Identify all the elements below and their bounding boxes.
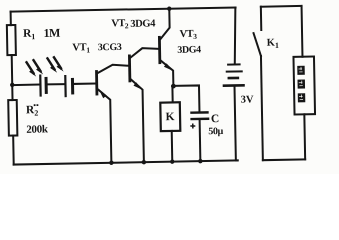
light arrows BP1 [27,62,34,73]
battery GB plate 2 long [227,70,242,72]
capacitor C plate bottom [192,118,208,121]
svg-text:K1: K1 [267,37,279,50]
node VT1 emitter at rail [109,161,113,165]
wire right loop lower left [261,56,263,160]
capacitor C plate top [191,111,207,114]
wire between cells [48,83,65,85]
transistor VT1 emitter [98,89,111,163]
resistor R2 [8,100,17,136]
transistor VT3 emitter [161,61,173,87]
wire right loop upper left [260,7,262,30]
transistor VT2 emitter [131,79,144,162]
wire junction to capacitor [173,85,199,111]
node VT2 emitter at rail [142,160,146,164]
wire capacitor to bottom rail [199,120,202,161]
resistor R1 [7,25,16,55]
battery GB plate 4 long [224,84,243,87]
wire right loop bottom [263,158,305,161]
wire left rail lower [12,136,15,165]
svg-text:3DG4: 3DG4 [177,44,201,55]
wire battery bottom [235,87,238,161]
transistor VT1 collector [98,64,129,73]
svg-text:R1: R1 [23,28,36,42]
node capacitor at rail [198,159,202,163]
buzzer char 2 [297,80,305,89]
wire relay to bottom rail [171,131,174,162]
svg-text:VT2: VT2 [111,18,129,31]
photocell BP2 [64,76,67,96]
light arrows BP2 [47,58,54,69]
wire bottom rail [14,160,238,164]
svg-text:200k: 200k [26,123,49,135]
transistor VT1 emitter arrow (PNP) [99,89,107,99]
wire right loop top [261,5,302,8]
relay K box [160,102,180,131]
wire left rail upper [10,12,12,25]
svg-text:C: C [211,113,220,125]
svg-text:R2: R2 [26,104,39,118]
transistor VT2 base bar [128,56,131,81]
node VT3 collector at top rail [167,6,171,10]
wire left rail middle [11,55,14,100]
svg-text:1M: 1M [43,26,60,40]
svg-text:50μ: 50μ [208,126,223,137]
wire buzzer to bottom [303,114,306,159]
svg-text:3V: 3V [241,94,254,105]
buzzer char 1 [297,66,305,75]
transistor VT2 collector [131,48,159,58]
transistor VT2 emitter arrow (NPN) [133,82,143,90]
label R2 marks [34,104,36,106]
node relay at rail [170,159,174,163]
battery GB plate 3 short [229,77,238,80]
wire cell2 to VT1 base [74,83,95,85]
wire right loop right upper [301,6,304,57]
svg-text:VT3: VT3 [179,29,197,42]
node junction emitter/relay/cap [171,84,176,89]
buzzer char 3 [298,93,306,102]
label + polarity [190,123,195,128]
photocell BP1 [39,76,42,96]
wire photocell branch [12,84,39,86]
transistor VT1 base bar [95,72,98,94]
svg-text:VT1: VT1 [72,42,90,55]
svg-text:3CG3: 3CG3 [98,42,122,53]
svg-text:3DG4: 3DG4 [130,18,156,29]
switch K1 blade [254,33,261,56]
svg-text:K: K [165,111,174,123]
wire top rail [11,7,236,11]
buzzer box [293,57,315,115]
node junction left [10,83,14,87]
wire battery top [234,7,237,63]
transistor VT3 collector [160,9,170,39]
transistor VT3 emitter arrow (NPN) [164,63,174,71]
battery GB plate 1 [228,63,239,65]
wire junction to relay [171,86,173,102]
transistor VT3 base bar [158,37,161,62]
